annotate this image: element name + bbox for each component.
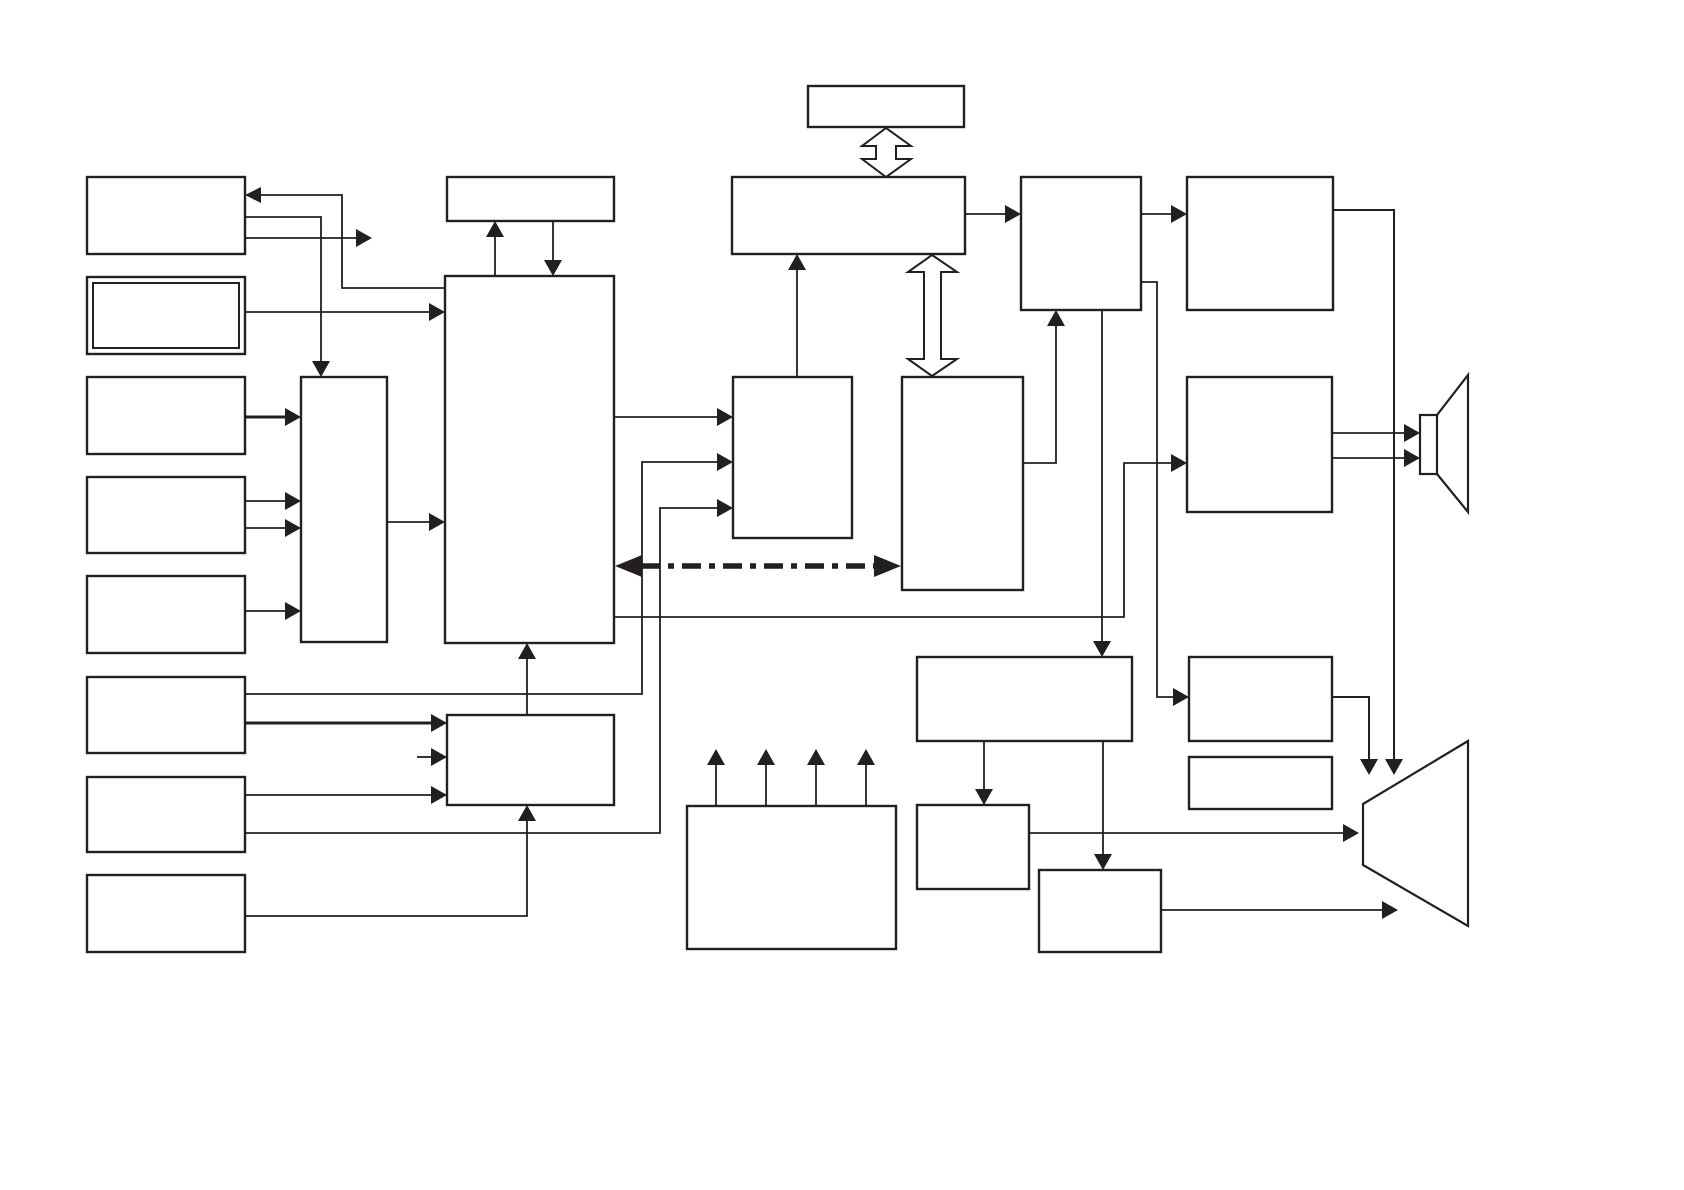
wire TOPSMALL down to BIG xyxy=(552,221,554,262)
wire BIG to MED xyxy=(614,416,719,418)
box FRB xyxy=(1187,177,1333,310)
box B3 xyxy=(87,377,245,454)
wire stub to CTRL xyxy=(417,756,433,758)
arrowhead into BIG from B2 xyxy=(429,303,445,321)
arrowhead into B1 xyxy=(245,187,261,203)
arrowhead into MED from BIG xyxy=(717,408,733,426)
arrowhead up into BIG from CTRL xyxy=(518,643,536,659)
arrowhead into MID top xyxy=(312,361,330,377)
box B6 xyxy=(87,677,245,753)
box TOPSMALL xyxy=(447,177,614,221)
box CTRL xyxy=(447,715,614,805)
box B5 xyxy=(87,576,245,653)
wire B7 to CTRL xyxy=(245,794,433,796)
box B2 double border xyxy=(87,277,245,354)
arrowhead into MID from B4 lower xyxy=(285,519,301,537)
arrowhead B15 up 3 xyxy=(807,749,825,765)
box TOPBOX xyxy=(808,86,964,127)
wire B4 to MID upper xyxy=(245,500,287,502)
wire RB to FRB xyxy=(1141,213,1173,215)
wire WIDE to RB xyxy=(965,213,1007,215)
arrowhead into FRB from RB xyxy=(1171,205,1187,223)
wire B15 up arrow 2 xyxy=(765,763,767,806)
arrowhead into CTRL from B6 xyxy=(431,714,447,732)
arrowhead up into TOPSMALL xyxy=(486,221,504,237)
arrowhead into SPK1 lower xyxy=(1404,449,1420,467)
wire B13 right down to SPK2 xyxy=(1332,697,1369,761)
arrowhead up into WIDE from MED xyxy=(788,254,806,270)
wire B10 down to B11 xyxy=(983,741,985,791)
arrowhead into MID from B5 xyxy=(285,602,301,620)
box MID xyxy=(301,377,387,642)
hollow double arrow HA1 between TOPBOX and WIDE xyxy=(862,128,911,177)
box B9 xyxy=(902,377,1023,590)
arrowhead floating from B1 xyxy=(356,229,372,247)
speaker SPK2 xyxy=(1363,741,1468,926)
wire B5 to MID xyxy=(245,610,287,612)
arrowhead B15 up 4 xyxy=(857,749,875,765)
box BIG xyxy=(445,276,614,643)
box B11 xyxy=(917,805,1029,889)
box RMB xyxy=(1187,377,1332,512)
wire FRB right down to SPK2 xyxy=(1333,210,1394,761)
wire B10 down to B12 xyxy=(1102,741,1104,856)
box B14 xyxy=(1189,757,1332,809)
wire B15 up arrow 1 xyxy=(715,763,717,806)
speaker SPK1 xyxy=(1420,375,1468,512)
arrowhead up into RB from B9 xyxy=(1047,310,1065,326)
wire B4 to MID lower xyxy=(245,527,287,529)
wire B1 right floating arrow xyxy=(245,237,358,239)
arrowhead into MED from B6 xyxy=(717,453,733,471)
wire CTRL up to BIG xyxy=(526,657,528,715)
wire B6 to CTRL xyxy=(245,722,433,725)
arrowhead down into SPK2 from FRB xyxy=(1385,759,1403,775)
arrowhead down into B11 xyxy=(975,789,993,805)
wire B8 to CTRL bottom xyxy=(245,819,527,916)
arrowhead into B13 from RB xyxy=(1173,688,1189,706)
arrowhead into CTRL from B7 xyxy=(431,786,447,804)
arrowhead down into B12 xyxy=(1094,854,1112,870)
wire BIG up to TOPSMALL xyxy=(494,235,496,276)
wire B15 up arrow 4 xyxy=(865,763,867,806)
arrowhead into CTRL from stub xyxy=(431,748,447,766)
box B8 xyxy=(87,875,245,952)
arrowhead into SPK1 upper xyxy=(1404,424,1420,442)
arrowhead down into B10 from RB xyxy=(1093,641,1111,657)
wire B15 up arrow 3 xyxy=(815,763,817,806)
arrowhead B15 up 1 xyxy=(707,749,725,765)
wire MED up to WIDE xyxy=(796,268,798,377)
arrowhead into MID from B4 upper xyxy=(285,492,301,510)
box B15 xyxy=(687,806,896,949)
wire B9 up to RB bottom xyxy=(1023,324,1056,463)
arrowhead into RB from WIDE xyxy=(1005,205,1021,223)
arrowhead into RMB from BIG xyxy=(1171,454,1187,472)
arrowhead down into SPK2 from B13 xyxy=(1360,759,1378,775)
wire BIG right to RMB xyxy=(614,463,1173,617)
wire B11 to SPK2 xyxy=(1029,832,1345,834)
arrowhead into SPK2 from B11 xyxy=(1343,824,1359,842)
box WIDE xyxy=(732,177,965,254)
wire B6 up to MED xyxy=(245,462,719,694)
wire B2 to BIG xyxy=(245,311,431,313)
box B13 xyxy=(1189,657,1332,741)
arrowhead up into CTRL from B8 xyxy=(518,805,536,821)
arrowhead into BIG from MID xyxy=(429,513,445,531)
box MED xyxy=(733,377,852,538)
wire MID to BIG xyxy=(387,521,431,523)
wire BIG to B1 xyxy=(259,195,445,288)
box B10 xyxy=(917,657,1132,741)
wire RB bottom down to B10 xyxy=(1101,310,1103,643)
arrowhead B15 up 2 xyxy=(757,749,775,765)
wire B3 to MID xyxy=(245,416,287,419)
dash-dot bidirectional wire BIG to B9 xyxy=(615,555,901,577)
wire B1 down to MID top xyxy=(245,217,321,363)
wire B12 right arrow xyxy=(1161,909,1382,911)
box RB xyxy=(1021,177,1141,310)
arrowhead into MID from B3 xyxy=(285,408,301,426)
box B1 xyxy=(87,177,245,254)
hollow double arrow HA2 between WIDE and B9 xyxy=(908,255,957,376)
arrowhead into MED from B7 xyxy=(717,499,733,517)
wire RMB to SPK1 upper xyxy=(1332,432,1406,434)
wire B7 up to MED xyxy=(245,508,719,833)
arrowhead down into BIG xyxy=(544,260,562,276)
box B12 xyxy=(1039,870,1161,952)
box B4 xyxy=(87,477,245,553)
wire RB right to B13 xyxy=(1141,282,1175,697)
arrowhead from B12 right xyxy=(1382,901,1398,919)
wire RMB to SPK1 lower xyxy=(1332,457,1406,459)
box B7 xyxy=(87,777,245,852)
